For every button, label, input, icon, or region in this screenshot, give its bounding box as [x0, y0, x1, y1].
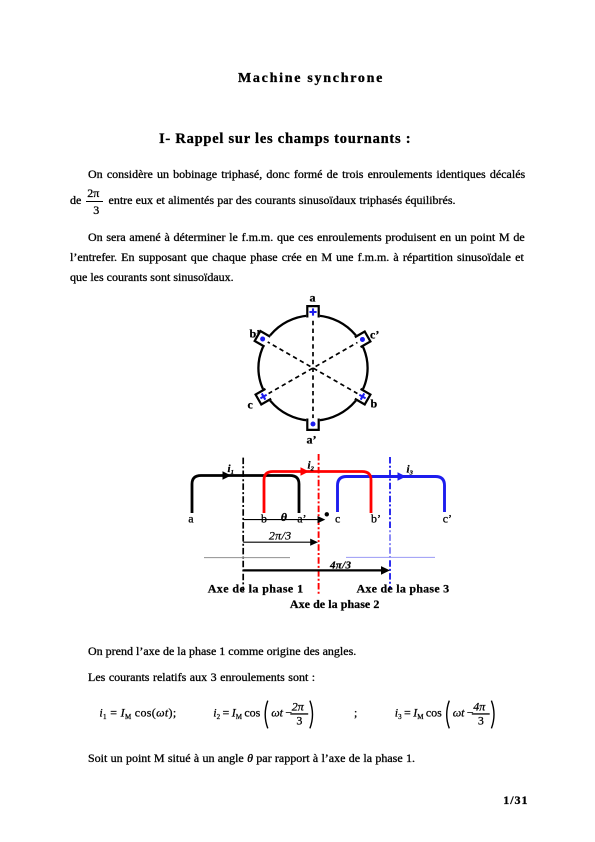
formula i3 left paren: [447, 701, 450, 729]
svg-text:c: c: [248, 398, 254, 412]
slot b' (150deg): [253, 330, 271, 348]
formula i3 fraction bar: [472, 713, 490, 714]
formula i3 right paren: [491, 701, 494, 729]
svg-text:;: ;: [354, 706, 357, 720]
svg-text:3: 3: [296, 713, 302, 727]
dashed diameter b'-b: [266, 341, 360, 395]
bottom paragraph 1: [88, 645, 356, 657]
svg-text:3: 3: [478, 713, 484, 727]
svg-text:i2: i2: [308, 459, 315, 472]
dashed diameter a-a': [312, 313, 314, 423]
svg-text:Axe de la phase 3: Axe de la phase 3: [357, 582, 450, 596]
slot c (210deg): [254, 388, 272, 406]
title: [238, 72, 384, 86]
svg-text:c: c: [335, 512, 340, 526]
slot a (top): [306, 305, 320, 318]
arrow i3 on blue: [398, 472, 407, 480]
blue reference line: [346, 556, 435, 558]
svg-text:i1: i1: [228, 463, 234, 476]
svg-text:2π/3: 2π/3: [269, 529, 291, 543]
4pi/3 arrow: [243, 569, 382, 571]
bottom paragraph 3: [88, 752, 415, 764]
slot b (330deg): [354, 388, 372, 406]
slot c' (30deg): [354, 330, 372, 348]
formula i2 fraction bar: [290, 713, 308, 714]
svg-text:Axe de la phase 2: Axe de la phase 2: [290, 597, 380, 611]
svg-text:b: b: [261, 512, 267, 526]
WINDING DIAGRAM: [180, 440, 480, 620]
winding a-a' (black staple): [192, 476, 299, 514]
winding c-c' (blue staple): [338, 477, 445, 513]
svg-text:c’: c’: [370, 327, 379, 341]
faded section of blue axis: [388, 528, 393, 558]
svg-text:θ: θ: [281, 510, 288, 524]
svg-text:b’: b’: [250, 326, 261, 340]
2pi/3 arrow: [243, 541, 311, 543]
fraction denominator: [93, 204, 99, 216]
dashed diameter c'-c: [266, 341, 360, 395]
paragraph 2: [88, 231, 525, 243]
point M bullet: [325, 512, 329, 516]
winding b-b' (red staple): [264, 472, 371, 514]
phase axis 2 (red dash-dot): [318, 454, 320, 594]
svg-text:i2 = IM cos: i2 = IM cos: [213, 705, 260, 721]
arrow i1 on black: [223, 471, 232, 479]
bottom paragraph 2: [88, 671, 315, 683]
theta arrow: [243, 519, 318, 521]
stator circle: [258, 315, 367, 420]
svg-text:i3: i3: [407, 463, 414, 476]
section heading: [159, 132, 411, 147]
svg-text:2π: 2π: [292, 700, 305, 714]
phase axis 3 (blue dash-dot): [389, 457, 391, 589]
arrow i2 on red: [301, 467, 310, 475]
svg-text:i1 = IM cos(ωt);: i1 = IM cos(ωt);: [99, 705, 176, 721]
svg-text:4π: 4π: [473, 700, 486, 714]
svg-text:a’: a’: [297, 512, 306, 526]
paragraph 1 line 2 rest: [109, 194, 456, 206]
paragraph 1 line 1 (justified): [88, 168, 525, 180]
gray reference line: [204, 557, 290, 559]
fraction bar: [86, 201, 103, 202]
svg-text:a: a: [188, 512, 194, 526]
formula i2 left paren: [265, 701, 268, 729]
formula i2 right paren: [310, 701, 313, 729]
svg-text:c’: c’: [443, 512, 452, 526]
slot a' (bottom): [306, 418, 320, 431]
svg-text:Axe de la phase 1: Axe de la phase 1: [208, 582, 304, 596]
svg-text:i3 = IM cos: i3 = IM cos: [395, 705, 442, 721]
phase axis 1 (black dash-dot): [242, 458, 244, 592]
paragraph 1 line 2 : "de": [70, 194, 81, 206]
svg-text:b’: b’: [371, 512, 381, 526]
page number: [503, 794, 528, 806]
fraction 2pi/3 numerator: [87, 187, 99, 199]
svg-text:ωt −: ωt −: [453, 706, 474, 720]
svg-text:ωt −: ωt −: [271, 706, 292, 720]
svg-text:a: a: [310, 290, 316, 304]
svg-text:b: b: [371, 397, 378, 411]
FORMULAS: [90, 695, 510, 735]
CIRCLE DIAGRAM: [240, 288, 395, 453]
